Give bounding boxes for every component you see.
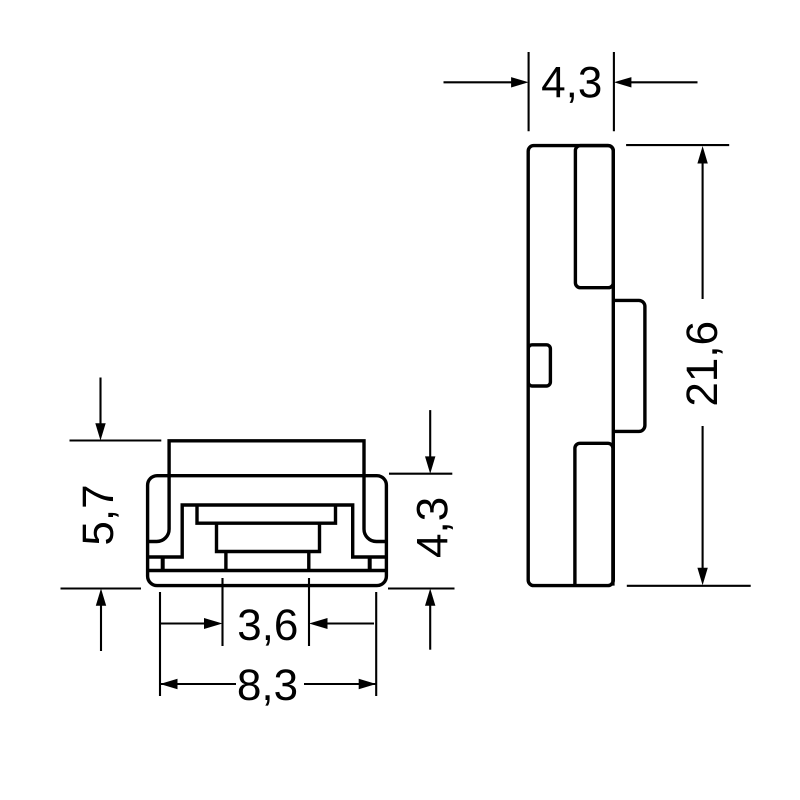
side view: lower inner blade xyxy=(575,443,613,585)
dim 21,6: lower line segment xyxy=(702,426,704,569)
front view: right foot mark xyxy=(368,557,372,571)
front view: step B xyxy=(197,505,336,523)
dim 8,3: right line segment xyxy=(304,683,376,685)
side view: outer body xyxy=(528,146,613,586)
label 4,3 (top, side view width) xyxy=(542,67,600,103)
arrowhead 4,3 top right xyxy=(614,77,632,87)
front view: step D right edge xyxy=(307,552,310,571)
label 21,6 (side view height) xyxy=(686,323,722,405)
dim 4,3 right: lower arrow tail xyxy=(429,606,431,650)
label 8,3 (front view outer width) xyxy=(239,669,296,705)
dim 8,3: left line segment xyxy=(160,683,236,685)
dim 3,6: left arrow tail xyxy=(160,622,205,624)
dim 8,3: right extension line xyxy=(375,592,377,696)
dim 5,7: upper arrow tail xyxy=(99,378,101,425)
dim 3,6: right arrow tail xyxy=(327,622,374,624)
arrowhead 21,6 down xyxy=(697,568,707,586)
arrowhead 8,3 right (points right) xyxy=(359,679,377,689)
dim 5,7: top extension line xyxy=(70,439,162,441)
label 5,7 (front view overall height) xyxy=(83,487,119,544)
dim 3,6: left extension line xyxy=(221,578,223,646)
dim 21,6: bottom extension line xyxy=(627,585,751,587)
dim 5,7: bottom extension line xyxy=(61,587,142,589)
front view: top tab with inner curved walls xyxy=(148,441,387,542)
side view: upper inner blade xyxy=(575,146,613,288)
front view: step D left edge xyxy=(224,552,227,571)
dim 4,3 top: left arrow tail xyxy=(444,81,512,83)
arrowhead 3,6 left (points right) xyxy=(204,618,223,629)
dim 21,6: top extension line xyxy=(626,144,729,146)
label 3,6 (front view inner width) xyxy=(239,609,297,645)
front view: step C xyxy=(217,523,320,551)
side view: right protrusion xyxy=(613,300,645,431)
label 4,3 (front view body height) xyxy=(417,499,453,557)
dim 21,6: upper line segment xyxy=(702,163,704,300)
arrowhead 4,3 top left xyxy=(511,77,528,87)
dim 4,3 top: right arrow tail xyxy=(631,81,698,83)
dim 8,3: left extension line xyxy=(159,592,161,696)
arrowhead 5,7 down xyxy=(95,423,105,440)
dim 4,3 right: bottom extension line xyxy=(388,587,455,589)
dim 3,6: right extension line xyxy=(308,578,310,646)
front view: inner seat and step A xyxy=(148,505,387,557)
arrowhead 5,7 up xyxy=(96,589,106,606)
front view: left foot mark xyxy=(161,557,165,571)
dim 4,3 right: upper arrow tail xyxy=(429,410,431,457)
arrowhead 4,3 right up xyxy=(425,589,435,606)
arrowhead 3,6 right (points left) xyxy=(309,618,328,629)
dim 4,3 right: top extension line xyxy=(389,473,452,475)
front view: outer body xyxy=(148,476,387,586)
arrowhead 21,6 up xyxy=(697,146,707,164)
side view: left notch xyxy=(528,345,550,386)
dim 4,3 top: left extension line xyxy=(528,52,530,131)
arrowhead 8,3 left (points left) xyxy=(160,679,178,689)
dim 5,7: lower arrow tail xyxy=(100,606,102,652)
arrowhead 4,3 right down xyxy=(425,456,435,473)
dim 4,3 top: right extension line xyxy=(613,52,615,131)
front view: inner floor xyxy=(148,569,387,572)
